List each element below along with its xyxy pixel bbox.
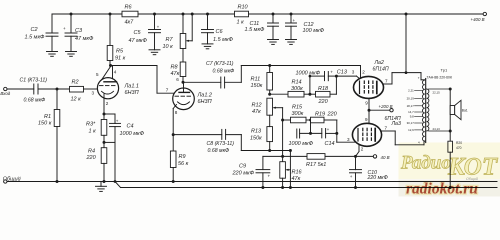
svg-text:Ва1: Ва1 (462, 109, 468, 113)
node R11/R12/R14 junction (268, 93, 271, 96)
svg-text:R3*: R3* (86, 121, 96, 127)
tube Ла1.1 (6Н3П triode) (92, 66, 139, 115)
potentiometer R12 (252, 98, 283, 156)
svg-text:+: + (327, 127, 330, 132)
svg-text:1000 мкФ: 1000 мкФ (120, 131, 145, 137)
svg-text:91 к: 91 к (115, 55, 126, 61)
svg-text:47 мкФ: 47 мкФ (129, 38, 148, 44)
svg-text:300к: 300к (291, 86, 303, 92)
svg-text:3: 3 (347, 137, 350, 142)
svg-text:6: 6 (176, 77, 179, 82)
svg-text:+200 В: +200 В (379, 104, 393, 109)
svg-text:R2: R2 (72, 80, 79, 86)
svg-text:5: 5 (96, 72, 99, 77)
svg-text:R8: R8 (171, 65, 179, 71)
svg-text:+400 В: +400 В (471, 17, 485, 22)
wire grid Ла3 / R17 line (263, 155, 373, 158)
svg-text:6Н3П: 6Н3П (125, 90, 139, 96)
svg-text:220: 220 (318, 99, 329, 105)
svg-text:С4: С4 (127, 123, 134, 129)
svg-text:7: 7 (418, 76, 420, 80)
resistor R5 (107, 14, 125, 66)
svg-text:radiokot.ru: radiokot.ru (406, 181, 478, 198)
svg-text:220: 220 (327, 111, 338, 117)
resistor R18 (316, 86, 337, 105)
svg-text:2: 2 (361, 147, 364, 152)
wire input to C1 (7, 88, 34, 90)
capacitor C4 (104, 114, 145, 142)
tube Ла2 (6П14П pentode) (352, 60, 389, 105)
tube Ла3 (6П14П pentode) (347, 116, 401, 152)
svg-text:1.5 мкФ: 1.5 мкФ (25, 34, 46, 40)
svg-text:220: 220 (86, 155, 97, 161)
wire cathode Ла2 (336, 75, 356, 77)
capacitor C6 (202, 14, 234, 44)
resistor R3* (86, 113, 107, 143)
svg-text:С12: С12 (304, 22, 314, 28)
svg-text:+: + (157, 24, 160, 29)
node cathode Ла1.2 junction (172, 133, 175, 136)
svg-text:R6: R6 (125, 5, 133, 11)
svg-text:Ла1.2: Ла1.2 (197, 92, 212, 98)
node R3/R4/C4 junction (103, 141, 106, 144)
svg-text:Ла3: Ла3 (391, 121, 401, 127)
capacitor C14 (289, 120, 339, 147)
svg-text:С8 (К73-11): С8 (К73-11) (207, 141, 235, 147)
svg-text:1.5 мкФ: 1.5 мкФ (245, 27, 266, 33)
svg-text:+: + (116, 119, 119, 124)
resistor R2 (70, 80, 98, 103)
tube Ла1.2 (6Н3П triode) (166, 82, 212, 134)
svg-text:Радио: Радио (400, 153, 451, 174)
svg-text:0.68 мкФ: 0.68 мкФ (24, 97, 46, 103)
svg-text:Тр1: Тр1 (441, 68, 448, 73)
node anode Ла1.1 / R5 junction (109, 64, 112, 67)
svg-text:+: + (350, 174, 353, 179)
potentiometer R7 (163, 14, 193, 50)
wire anode Ла2 to transformer (383, 14, 424, 84)
capacitor C2 (25, 14, 59, 52)
resistor R13 (250, 115, 273, 150)
resistor R4 (86, 142, 107, 181)
svg-text:12,9: 12,9 (408, 128, 414, 132)
node +400 В terminal (471, 12, 487, 22)
svg-text:4: 4 (114, 69, 117, 74)
ground under C11 (268, 40, 279, 45)
capacitor C9 (232, 156, 271, 187)
svg-text:30,17: 30,17 (407, 121, 415, 125)
svg-text:220 мкФ: 220 мкФ (367, 175, 388, 181)
svg-text:Ла1.1: Ла1.1 (124, 83, 139, 89)
resistor R17 (306, 154, 326, 168)
svg-text:150к: 150к (250, 136, 262, 142)
svg-text:47к: 47к (252, 109, 261, 115)
svg-text:6П14П: 6П14П (373, 66, 389, 72)
wire C4 ground drop (114, 142, 116, 181)
svg-text:R5: R5 (116, 48, 124, 54)
watermark РадиоКОТ block (399, 143, 500, 182)
wire pin6 to C7 (183, 81, 221, 83)
svg-text:56 к: 56 к (178, 161, 189, 167)
svg-text:С1 (К73-11): С1 (К73-11) (20, 77, 48, 83)
capacitor C8 (207, 129, 235, 154)
potentiometer R16 (280, 156, 303, 187)
capacitor C13 (296, 69, 348, 94)
svg-text:22,15: 22,15 (433, 91, 441, 95)
node R14/R18 junction (308, 93, 311, 96)
svg-text:220 мкФ: 220 мкФ (232, 171, 255, 177)
svg-text:R10: R10 (238, 5, 249, 11)
svg-text:R12: R12 (252, 102, 262, 108)
ground under C3 (66, 52, 77, 57)
capacitor C10 (350, 156, 388, 187)
transformer Тр1 (407, 68, 452, 145)
svg-text:8: 8 (175, 110, 178, 115)
resistor R20 (470) (448, 131, 462, 188)
svg-text:9,8: 9,8 (410, 115, 414, 119)
svg-text:2,21: 2,21 (408, 89, 414, 93)
svg-text:Вход: Вход (0, 91, 10, 96)
capacitor C12 (286, 14, 325, 40)
svg-text:1000 мкФ: 1000 мкФ (289, 141, 314, 147)
svg-text:R14: R14 (292, 79, 302, 85)
svg-text:R9: R9 (179, 154, 186, 160)
svg-text:+: + (293, 18, 296, 23)
svg-text:3: 3 (92, 91, 95, 96)
top +400V rail (52, 13, 483, 16)
svg-text:1 к: 1 к (237, 20, 245, 26)
node pin 6 junction (176, 77, 184, 84)
wire R13 bottom to ground drop (270, 149, 292, 188)
resistor R9 (170, 135, 188, 182)
svg-text:47 мкФ: 47 мкФ (75, 36, 94, 42)
svg-text:ТАН-8В 220-60К: ТАН-8В 220-60К (427, 75, 452, 79)
svg-text:9: 9 (365, 117, 368, 122)
node R12 wiper / R15 junction (281, 119, 284, 122)
watermark radiokot.ru band (399, 180, 500, 198)
svg-text:150к: 150к (251, 83, 263, 89)
svg-text:С3: С3 (75, 28, 83, 34)
svg-text:18,17: 18,17 (407, 104, 415, 108)
svg-text:R17 5к1: R17 5к1 (306, 162, 326, 168)
svg-text:С2: С2 (31, 27, 38, 33)
wire anode Ла1.1 to grid Ла1.2 (111, 66, 174, 94)
svg-text:7: 7 (166, 88, 169, 93)
wire C7 to R11/grid line (225, 66, 361, 83)
svg-text:С6: С6 (216, 29, 224, 35)
svg-text:7: 7 (385, 79, 388, 84)
svg-text:R15: R15 (292, 104, 303, 110)
wire screens pin 9 (368, 98, 390, 123)
svg-text:10 к: 10 к (163, 44, 174, 50)
resistor R15 (283, 104, 311, 122)
svg-text:1.5 мкФ: 1.5 мкФ (213, 37, 234, 43)
svg-text:R7: R7 (166, 37, 174, 43)
capacitor C11 (245, 14, 279, 40)
svg-text:24,13: 24,13 (433, 127, 441, 131)
wire anode Ла3 to transformer (382, 131, 425, 145)
svg-text:4к7: 4к7 (125, 20, 135, 26)
speaker Ва1 (449, 88, 468, 133)
svg-text:0.68 мкФ: 0.68 мкФ (213, 68, 235, 74)
svg-text:40 В: 40 В (381, 155, 390, 160)
resistor R10 (235, 5, 249, 26)
capacitor C7 (206, 61, 234, 88)
svg-text:R13: R13 (251, 129, 262, 135)
ground under C12 (286, 40, 297, 45)
wire grid Ла3 (356, 145, 360, 157)
ground symbol on bus (96, 182, 107, 192)
svg-text:1000 мкФ: 1000 мкФ (296, 70, 321, 76)
resistor R6 (122, 5, 138, 26)
svg-text:С13: С13 (337, 69, 348, 75)
svg-text:+: + (63, 26, 66, 31)
wire ground bus 2 (115, 182, 497, 190)
svg-text:+: + (330, 69, 333, 74)
svg-text:14,7: 14,7 (408, 110, 414, 114)
svg-text:+: + (268, 174, 271, 179)
ground under C2 (47, 52, 58, 57)
wire cathode Ла1.2 through C8 to R13 (173, 135, 270, 151)
svg-text:3: 3 (352, 70, 355, 75)
svg-text:0.68 мкФ: 0.68 мкФ (208, 148, 230, 154)
svg-text:R18: R18 (318, 86, 329, 92)
svg-text:20,19: 20,19 (407, 96, 415, 100)
svg-text:300к: 300к (292, 111, 304, 117)
resistor R1 (38, 89, 60, 182)
svg-text:1 к: 1 к (89, 128, 97, 134)
ground under C6 (202, 44, 213, 49)
svg-text:С9: С9 (239, 164, 246, 170)
node R15/R19 junction (309, 119, 312, 122)
svg-text:С7 (К73-11): С7 (К73-11) (206, 61, 234, 67)
node +200 В terminal (379, 104, 394, 112)
svg-text:R11: R11 (251, 76, 261, 82)
wire C1 to R2 (38, 88, 70, 91)
resistor R19 (311, 111, 338, 122)
ground under C5 (149, 50, 160, 55)
resistor R11 (251, 64, 273, 94)
svg-text:R4: R4 (88, 148, 95, 154)
svg-text:R16: R16 (292, 170, 303, 176)
node R13 bottom junction (268, 149, 271, 152)
svg-text:Ла2: Ла2 (374, 60, 384, 66)
svg-text:12 к: 12 к (71, 97, 82, 103)
svg-text:R1: R1 (44, 114, 51, 120)
svg-text:100 мкФ: 100 мкФ (303, 28, 325, 34)
node Общий terminal (3, 175, 21, 183)
svg-text:7: 7 (385, 126, 388, 131)
wire ground bus 1 (7, 180, 497, 183)
svg-text:С14: С14 (325, 141, 335, 147)
wire R19/C14 to cathode Ла3 (337, 120, 356, 142)
resistor R14 (270, 79, 316, 97)
capacitor C5 (129, 14, 161, 50)
capacitor C3 (63, 14, 94, 52)
svg-text:С5: С5 (134, 30, 142, 36)
svg-text:2: 2 (106, 101, 109, 106)
svg-text:150 к: 150 к (38, 121, 52, 127)
svg-text:6Н3П: 6Н3П (198, 99, 212, 105)
node Вход (input terminal) (0, 87, 10, 96)
capacitor C1 (20, 77, 48, 103)
svg-text:R19: R19 (315, 111, 325, 117)
node 40 В terminal (373, 155, 389, 160)
svg-text:9: 9 (365, 100, 368, 105)
resistor R8 (171, 49, 186, 83)
svg-text:2: 2 (362, 70, 365, 75)
